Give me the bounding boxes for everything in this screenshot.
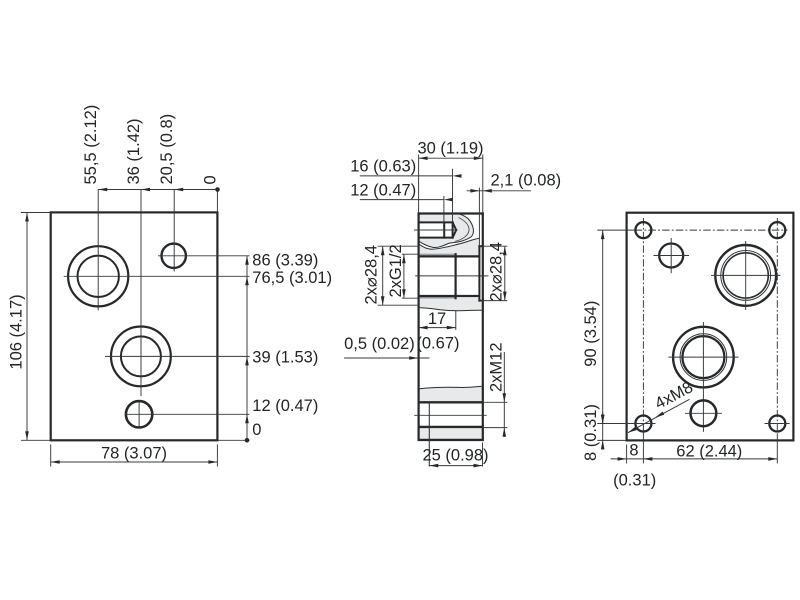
centerline vertical right bolt column <box>776 218 778 434</box>
bottom right bolt crosshair <box>765 423 790 425</box>
small bottom hole vertical centerline <box>138 401 140 428</box>
dim line 25 <box>429 465 482 467</box>
bolt hole bottom left <box>635 416 651 432</box>
svg-text:12 (0.47): 12 (0.47) <box>252 397 318 415</box>
svg-text:30 (1.19): 30 (1.19) <box>417 139 483 157</box>
port P rear outer circle <box>715 245 776 306</box>
port P thread circle <box>78 256 119 297</box>
extension line x=141 <box>140 190 142 397</box>
tapped hole bottom thread line <box>419 237 453 239</box>
LEFT-VIEW <box>8 105 333 467</box>
dim 90 extension top <box>597 229 635 231</box>
tapped hole top thread line <box>419 221 453 223</box>
svg-text:25 (0.98): 25 (0.98) <box>422 446 488 464</box>
section gray below M12 <box>420 428 482 439</box>
ports A vertical crosshair shared <box>702 322 704 432</box>
svg-text:36 (1.42): 36 (1.42) <box>125 118 143 184</box>
white broken-out region right <box>419 213 483 301</box>
dim 30 extension left <box>418 155 420 214</box>
svg-text:55,5 (2.12): 55,5 (2.12) <box>82 105 100 185</box>
port A rear thread circle thin <box>680 334 727 381</box>
section gray top block <box>420 215 482 256</box>
port A medium circle land <box>111 327 171 387</box>
M12 dim line <box>503 352 505 437</box>
body top edge <box>419 212 483 214</box>
tapped hole white <box>419 222 457 237</box>
svg-text:90 (3.54): 90 (3.54) <box>582 301 600 367</box>
dim 16 extension <box>452 169 454 223</box>
svg-text:39 (1.53): 39 (1.53) <box>252 349 318 367</box>
port cavity bottom line <box>419 295 479 297</box>
tapped hole drill end line <box>452 222 454 237</box>
small hole rear crosshair h <box>654 255 690 257</box>
bolt hole bottom right <box>769 416 785 432</box>
dim 12 extension <box>443 196 445 223</box>
port cavity top line <box>419 255 479 257</box>
svg-text:2x⌀28,4: 2x⌀28,4 <box>487 242 505 301</box>
dim 25 extension <box>482 443 484 467</box>
svg-text:16 (0.63): 16 (0.63) <box>350 157 416 175</box>
break-out loop curve <box>453 213 474 242</box>
small hole top right <box>162 244 186 268</box>
RIGHT-VIEW <box>582 213 793 490</box>
dim 30 extension right <box>482 155 484 214</box>
height dimension line 106 <box>26 213 28 441</box>
bottom dimension line <box>611 458 778 460</box>
width dimension line 78 <box>51 461 218 463</box>
lower wavy break line <box>419 238 480 249</box>
section gray above M12 with wavy top <box>419 386 482 401</box>
gray thread lines G1/2 <box>420 254 456 256</box>
G1/2 thread end line <box>455 254 457 298</box>
port A thread circle <box>121 336 161 376</box>
dia28,4 left extensions <box>378 245 419 247</box>
port P rear crosshair v <box>745 241 747 310</box>
svg-text:(0.67): (0.67) <box>416 335 459 353</box>
svg-text:(0.31): (0.31) <box>613 471 656 489</box>
bolt hole top right <box>769 222 785 238</box>
svg-text:17: 17 <box>428 310 446 328</box>
svg-text:2,1 (0.08): 2,1 (0.08) <box>491 171 562 189</box>
svg-text:20,5 (0.8): 20,5 (0.8) <box>158 114 176 185</box>
svg-text:62 (2.44): 62 (2.44) <box>676 443 742 461</box>
small hole rear crosshair v <box>670 238 672 273</box>
dim line 30 <box>419 157 483 159</box>
dia28,4 right dim line <box>504 246 506 300</box>
port P rear thread circle thin <box>721 251 771 301</box>
svg-text:2xG1/2: 2xG1/2 <box>387 244 405 297</box>
leader y=414.3 small bottom hole <box>125 413 250 415</box>
svg-text:2x⌀28,4: 2x⌀28,4 <box>363 245 381 304</box>
width dim 78 extension lines <box>50 444 52 466</box>
recess floor line <box>478 246 480 300</box>
port P rear crosshair h <box>711 274 781 276</box>
small hole bottom <box>126 401 152 427</box>
dim 8 left extension bottom <box>597 439 626 441</box>
port axis <box>415 275 488 277</box>
leader y=276.3 port P <box>64 275 250 277</box>
centerline horizontal top bolt row <box>635 229 788 231</box>
port A rear crosshair h <box>669 356 739 358</box>
svg-text:8 (0.31): 8 (0.31) <box>582 404 600 461</box>
dim 17 extension <box>455 311 457 330</box>
leader y=255.8 small hole <box>158 255 250 257</box>
bottom dim extensions <box>626 444 628 463</box>
M12 top thread line <box>418 401 483 403</box>
plate outline front view <box>51 212 218 440</box>
M12 axis <box>414 414 487 416</box>
svg-text:76,5 (3.01): 76,5 (3.01) <box>252 269 332 287</box>
plate outline rear view <box>627 213 794 441</box>
body right edge <box>482 214 484 440</box>
extension line x=174.2 <box>173 190 175 272</box>
drill cone <box>453 222 457 237</box>
wavy line below port <box>419 308 482 311</box>
port P large circle land <box>68 246 128 306</box>
svg-text:12 (0.47): 12 (0.47) <box>350 181 416 199</box>
svg-text:106 (4.17): 106 (4.17) <box>8 294 26 369</box>
dim line 2,1 <box>467 190 532 192</box>
section gray below port with wavy bottom <box>420 298 482 311</box>
M12 thread end line <box>428 403 430 467</box>
body bottom edge <box>418 439 484 441</box>
leader 0,5 <box>344 357 429 359</box>
recess bottom stub <box>479 300 482 302</box>
small hole rear bottom crosshair h <box>685 412 722 414</box>
inner cavity arc <box>455 218 469 242</box>
port A rear outer circle <box>673 327 734 388</box>
centerline vertical left bolt column <box>642 218 644 434</box>
G1/2 dim line <box>403 254 405 298</box>
wavy line above M12 zone <box>419 386 482 389</box>
small hole rear top <box>659 244 683 268</box>
body left edge <box>418 214 420 440</box>
svg-text:0: 0 <box>252 421 261 439</box>
svg-text:2xM12: 2xM12 <box>488 342 506 392</box>
svg-text:78 (3.07): 78 (3.07) <box>101 444 167 462</box>
dim 2,1 extension <box>478 188 480 247</box>
4xM8 leader line <box>628 399 690 432</box>
extension line x=98.2 <box>97 190 99 311</box>
MIDDLE-VIEW <box>344 139 561 467</box>
right ordinate dimension line <box>246 256 248 440</box>
port A rear hole circle <box>682 336 724 378</box>
svg-text:0: 0 <box>202 175 220 184</box>
dim line 90 <box>602 230 604 423</box>
extension line x=217.4 <box>216 190 218 213</box>
svg-text:86 (3.39): 86 (3.39) <box>252 251 318 269</box>
leader y=440.3 bottom edge <box>219 439 250 441</box>
port P rear hole circle <box>723 253 768 298</box>
tapped hole axis <box>414 229 458 231</box>
dim line 17 <box>419 327 456 329</box>
recess top stub <box>479 245 482 247</box>
bottom left bolt crosshair and extension <box>597 423 655 425</box>
tapped hole thread end line <box>443 222 445 237</box>
leader y=356.4 port A <box>105 355 250 357</box>
dia28,4 left dim line <box>382 246 384 305</box>
M12 extensions <box>484 401 507 403</box>
bolt hole top left <box>635 222 651 238</box>
G1/2 extensions <box>402 253 418 255</box>
top ordinate dimension line <box>98 189 217 191</box>
M12 bottom thread line <box>418 426 483 428</box>
dim line 8 left <box>602 412 604 450</box>
dim line 12 <box>360 199 444 201</box>
dim line 16 <box>360 175 453 177</box>
svg-text:8: 8 <box>629 441 638 459</box>
upper wavy break line <box>419 241 453 247</box>
dia28,4 right extensions <box>479 245 507 247</box>
svg-text:0,5 (0.02): 0,5 (0.02) <box>344 335 415 353</box>
small hole rear bottom <box>691 400 717 426</box>
height dim 106 extension lines <box>21 212 51 214</box>
